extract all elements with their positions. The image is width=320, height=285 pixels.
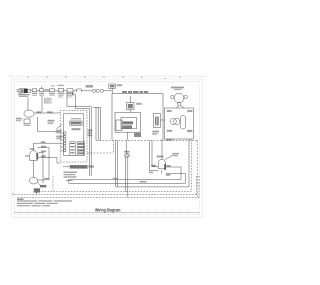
label control box callout	[56, 125, 63, 140]
title	[95, 207, 121, 212]
wire (dashed)	[40, 139, 192, 191]
wire	[34, 111, 60, 113]
relay K2	[127, 96, 142, 112]
wire	[38, 156, 60, 164]
control box U1	[63, 114, 83, 156]
wire	[116, 141, 190, 187]
switch S1	[32, 89, 37, 96]
wire	[151, 141, 158, 167]
outdoor boundary (dashed)	[87, 141, 197, 198]
wire	[38, 151, 46, 184]
wire	[48, 90, 51, 92]
wire (dashed)	[52, 177, 54, 192]
wire	[63, 90, 67, 92]
wire	[69, 165, 181, 179]
wire	[27, 97, 29, 110]
power plug P1	[16, 88, 30, 97]
wire	[188, 139, 190, 187]
start relay K3	[30, 177, 50, 194]
terminal block TB1	[86, 85, 104, 92]
wire	[37, 146, 49, 180]
wire	[125, 158, 127, 192]
frame (decorative)	[8, 77, 208, 218]
wire	[37, 90, 40, 92]
wire	[161, 139, 163, 159]
terminal strip TS1	[61, 132, 66, 152]
wire	[41, 96, 43, 113]
wire	[33, 160, 35, 177]
wire	[103, 90, 112, 92]
fan motor M2	[25, 148, 38, 160]
wire	[73, 90, 77, 92]
wire (dashed)	[13, 176, 199, 197]
wire	[44, 90, 45, 92]
connector J2	[70, 142, 75, 156]
rule line	[14, 212, 200, 214]
interlock S2	[45, 89, 49, 91]
wire	[81, 90, 92, 92]
label box	[45, 99, 52, 103]
sensor RT1	[124, 132, 129, 158]
label under connector	[64, 172, 78, 178]
wire	[127, 158, 129, 198]
wire	[34, 141, 61, 150]
wire	[93, 107, 100, 140]
switch S4	[77, 89, 82, 92]
notes text	[17, 199, 72, 207]
svg-text:Wiring Diagram: Wiring Diagram	[95, 207, 121, 212]
wire	[149, 141, 159, 174]
fuse F1	[39, 86, 44, 95]
transformer T1	[115, 112, 141, 137]
switch S3	[49, 85, 55, 96]
run capacitor C1	[152, 114, 164, 135]
wire	[31, 90, 33, 92]
control box enclosure (dashed)	[60, 110, 87, 162]
overload protector OL2	[165, 106, 194, 141]
connector J3	[77, 142, 84, 156]
control board U2 outline	[112, 91, 163, 140]
condenser fan motor M3	[157, 153, 179, 174]
overload OL1	[66, 89, 74, 98]
thermostat TH1	[57, 85, 64, 98]
wire	[69, 174, 186, 184]
connector J1	[63, 165, 94, 169]
wire labels	[88, 130, 93, 137]
wire	[38, 117, 61, 131]
compressor M1	[171, 87, 188, 106]
wire	[67, 92, 91, 176]
wire	[66, 179, 73, 183]
wire	[54, 90, 58, 92]
relay K1	[109, 84, 123, 93]
capacitor C2	[16, 110, 34, 126]
label wire codes	[48, 120, 55, 124]
wire	[73, 92, 90, 176]
